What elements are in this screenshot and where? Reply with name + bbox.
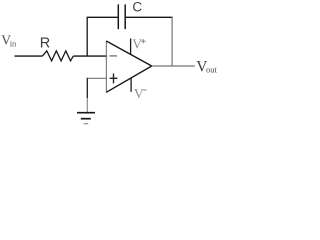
- wire feedback down to output: [171, 17, 173, 66]
- wire non-inverting input to ground branch: [88, 77, 107, 79]
- wire output: [152, 65, 195, 67]
- wire capacitor to feedback corner: [125, 16, 172, 18]
- pin V+ supply: [131, 37, 146, 55]
- wire resistor to inverting input: [73, 55, 107, 57]
- ground: [77, 113, 95, 124]
- wire Vin to resistor: [15, 55, 43, 57]
- wire node to capacitor: [87, 16, 119, 18]
- op-amp non-inverting input symbol: [110, 74, 118, 84]
- capacitor C: [118, 0, 142, 29]
- svg-text:V: V: [132, 37, 142, 52]
- op-amp U1: [106, 41, 151, 93]
- pin V- supply: [131, 78, 146, 102]
- node Vin label: [1, 32, 17, 48]
- op-amp inverting input symbol: [110, 55, 117, 57]
- resistor R: [40, 35, 74, 61]
- wire corner down to ground: [86, 78, 88, 112]
- svg-text:in: in: [10, 39, 17, 49]
- svg-text:V: V: [134, 87, 144, 102]
- node Vout label: [196, 58, 217, 75]
- svg-text:R: R: [40, 35, 50, 51]
- svg-text:out: out: [206, 65, 218, 75]
- node feedback branch: [86, 17, 88, 56]
- svg-text:C: C: [132, 0, 142, 15]
